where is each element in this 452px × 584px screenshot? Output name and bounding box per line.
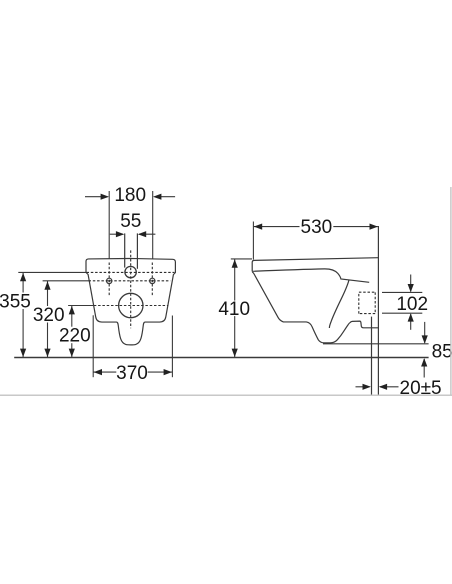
arrowhead 20 right: [379, 384, 387, 390]
page border gray vertical line: [450, 187, 452, 395]
arrowhead 20 left: [363, 384, 371, 390]
arrowhead 102 bottom: [408, 313, 414, 321]
svg-text:85: 85: [432, 342, 452, 363]
side view inner bowl curve: [329, 280, 349, 328]
arrowhead 530 left: [254, 224, 262, 230]
dimension 55 leader right: [139, 233, 155, 235]
svg-text:370: 370: [116, 363, 148, 384]
arrowhead 355 top: [20, 273, 26, 281]
white gap for 320 label: [33, 306, 65, 323]
side view rim line: [252, 269, 369, 282]
dimension 20 leader left: [356, 386, 370, 388]
arrowhead 85 down: [422, 335, 428, 343]
dimension 180 extension left: [108, 191, 110, 259]
arrowhead 55 left: [116, 231, 124, 237]
dimension 85 leader line: [323, 343, 429, 345]
dimension 20 leader right: [380, 386, 399, 388]
dimension 410 line: [234, 259, 236, 358]
outlet circle: [119, 293, 143, 317]
dimension 355 line: [22, 272, 24, 357]
floor line: [14, 357, 428, 359]
arrowhead 355 bottom: [20, 349, 26, 357]
svg-text:355: 355: [0, 291, 31, 312]
dimension 370 line: [93, 371, 172, 373]
side view front slant and underside: [252, 272, 378, 343]
dimension 220 line: [71, 306, 73, 358]
outlet pipe line: [371, 317, 373, 395]
svg-text:102: 102: [396, 294, 428, 315]
white gap for 410 label: [218, 301, 251, 317]
white gap for 370 label: [116, 364, 147, 380]
svg-text:410: 410: [218, 299, 250, 320]
dimension 180 leader left: [85, 196, 108, 198]
centerline horizontal through inlet: [87, 271, 175, 273]
centerline horizontal through holes: [89, 280, 171, 282]
dimension 102 extension top: [382, 291, 422, 293]
dimension 370 extension right: [171, 316, 173, 378]
dimension 85 arrow line top: [424, 322, 426, 343]
arrowhead 530 right: [370, 224, 378, 230]
arrowhead 180 left: [101, 194, 109, 200]
mounting hole left: [107, 278, 112, 283]
arrowhead 85 up: [421, 358, 427, 366]
wall line: [377, 226, 379, 395]
svg-text:530: 530: [301, 217, 333, 238]
dimension 410 extension: [231, 258, 252, 260]
arrowhead 370 left: [94, 369, 102, 375]
dimension 102 extension bottom: [382, 312, 422, 314]
dimension 85 arrow line bottom: [423, 359, 425, 378]
dimension 320 extension: [43, 280, 89, 282]
page separator gray line: [0, 394, 452, 396]
arrowhead 410 bottom: [232, 349, 238, 357]
white gap for 220 label: [60, 327, 91, 344]
front view body outline: [86, 258, 175, 344]
svg-text:220: 220: [59, 326, 91, 347]
hidden outlet dashed box: [359, 292, 375, 313]
dimension 102 arrow line bottom: [410, 314, 412, 330]
dimension 320 line: [47, 281, 49, 358]
dimension 180 extension right: [152, 191, 154, 259]
arrowhead 102 top: [408, 284, 414, 292]
arrowhead 180 right: [153, 194, 161, 200]
svg-text:180: 180: [114, 185, 146, 206]
front view flush pipe right line: [136, 233, 138, 268]
front view flush pipe left line: [124, 233, 126, 267]
centerline vertical hole left: [108, 263, 110, 297]
dimension 530 line: [254, 226, 378, 228]
arrowhead 220 bottom: [69, 349, 75, 357]
arrowhead 220 top: [69, 306, 75, 314]
arrowhead 410 top: [232, 259, 238, 267]
centerline horizontal through outlet: [94, 305, 169, 307]
dimension 370 extension left: [92, 315, 94, 377]
svg-text:55: 55: [120, 211, 141, 232]
arrowhead 320 top: [44, 281, 50, 289]
arrowhead 370 right: [164, 369, 172, 375]
centerline vertical body axis: [130, 250, 132, 328]
side view top edge: [252, 258, 378, 272]
arrowhead 320 bottom: [44, 349, 50, 357]
dimension 530 extension left: [252, 222, 254, 260]
dimension 180 leader right: [155, 196, 176, 198]
centerline vertical hole right: [151, 263, 153, 297]
white gap for 530 label: [300, 219, 334, 235]
mounting hole right: [150, 278, 155, 283]
svg-text:320: 320: [33, 305, 65, 326]
arrowhead 55 right: [138, 231, 146, 237]
inlet circle: [125, 266, 136, 277]
dimension 220 extension: [68, 305, 94, 307]
white gap for 355 label: [2, 293, 29, 310]
dimension 102 arrow line top: [410, 275, 412, 292]
dimension 355 extension: [18, 271, 86, 273]
dimension 55 leader left: [110, 233, 123, 235]
